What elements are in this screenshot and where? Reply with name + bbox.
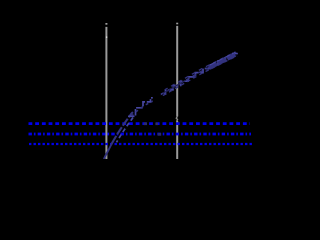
diagonal curve steep main dashed [112,112,133,143]
vertical gridline 2 lower part [176,121,178,159]
navy overlap dash on row 1 right [155,123,158,126]
top-right chunky band [209,54,236,68]
diagonal upper offset dashed right [165,52,236,90]
navy overlap dash on row 2 [158,133,161,136]
band gap (background patch) [153,88,161,102]
diagonal main dashed mid-right [160,67,210,95]
vertical gridline 2 top dash [176,23,178,25]
diagonal curve solid bottom segment [104,142,113,159]
dark core line near gridline 2 [163,80,186,93]
top-right band bright top edge [210,52,236,65]
horizontal dashed line row 2 [29,133,252,136]
vertical gridline 2 kink [176,116,177,121]
horizontal dashed line row 1 [29,122,251,125]
staircase dashed curve [128,52,237,117]
horizontal dashed line row 3 [29,143,253,145]
bright speck on gridline 1 [106,36,107,38]
vertical gridline 1 [105,27,107,159]
diagonal twin steep dashed line [117,118,134,143]
diagonal lower offset dashed right [162,56,237,96]
vertical gridline 2 upper part [176,26,178,117]
hatch dashes below staircase mid [132,96,162,115]
navy overlap dash on row 1 [144,122,147,125]
vertical gridline 1 top dash [105,23,107,25]
